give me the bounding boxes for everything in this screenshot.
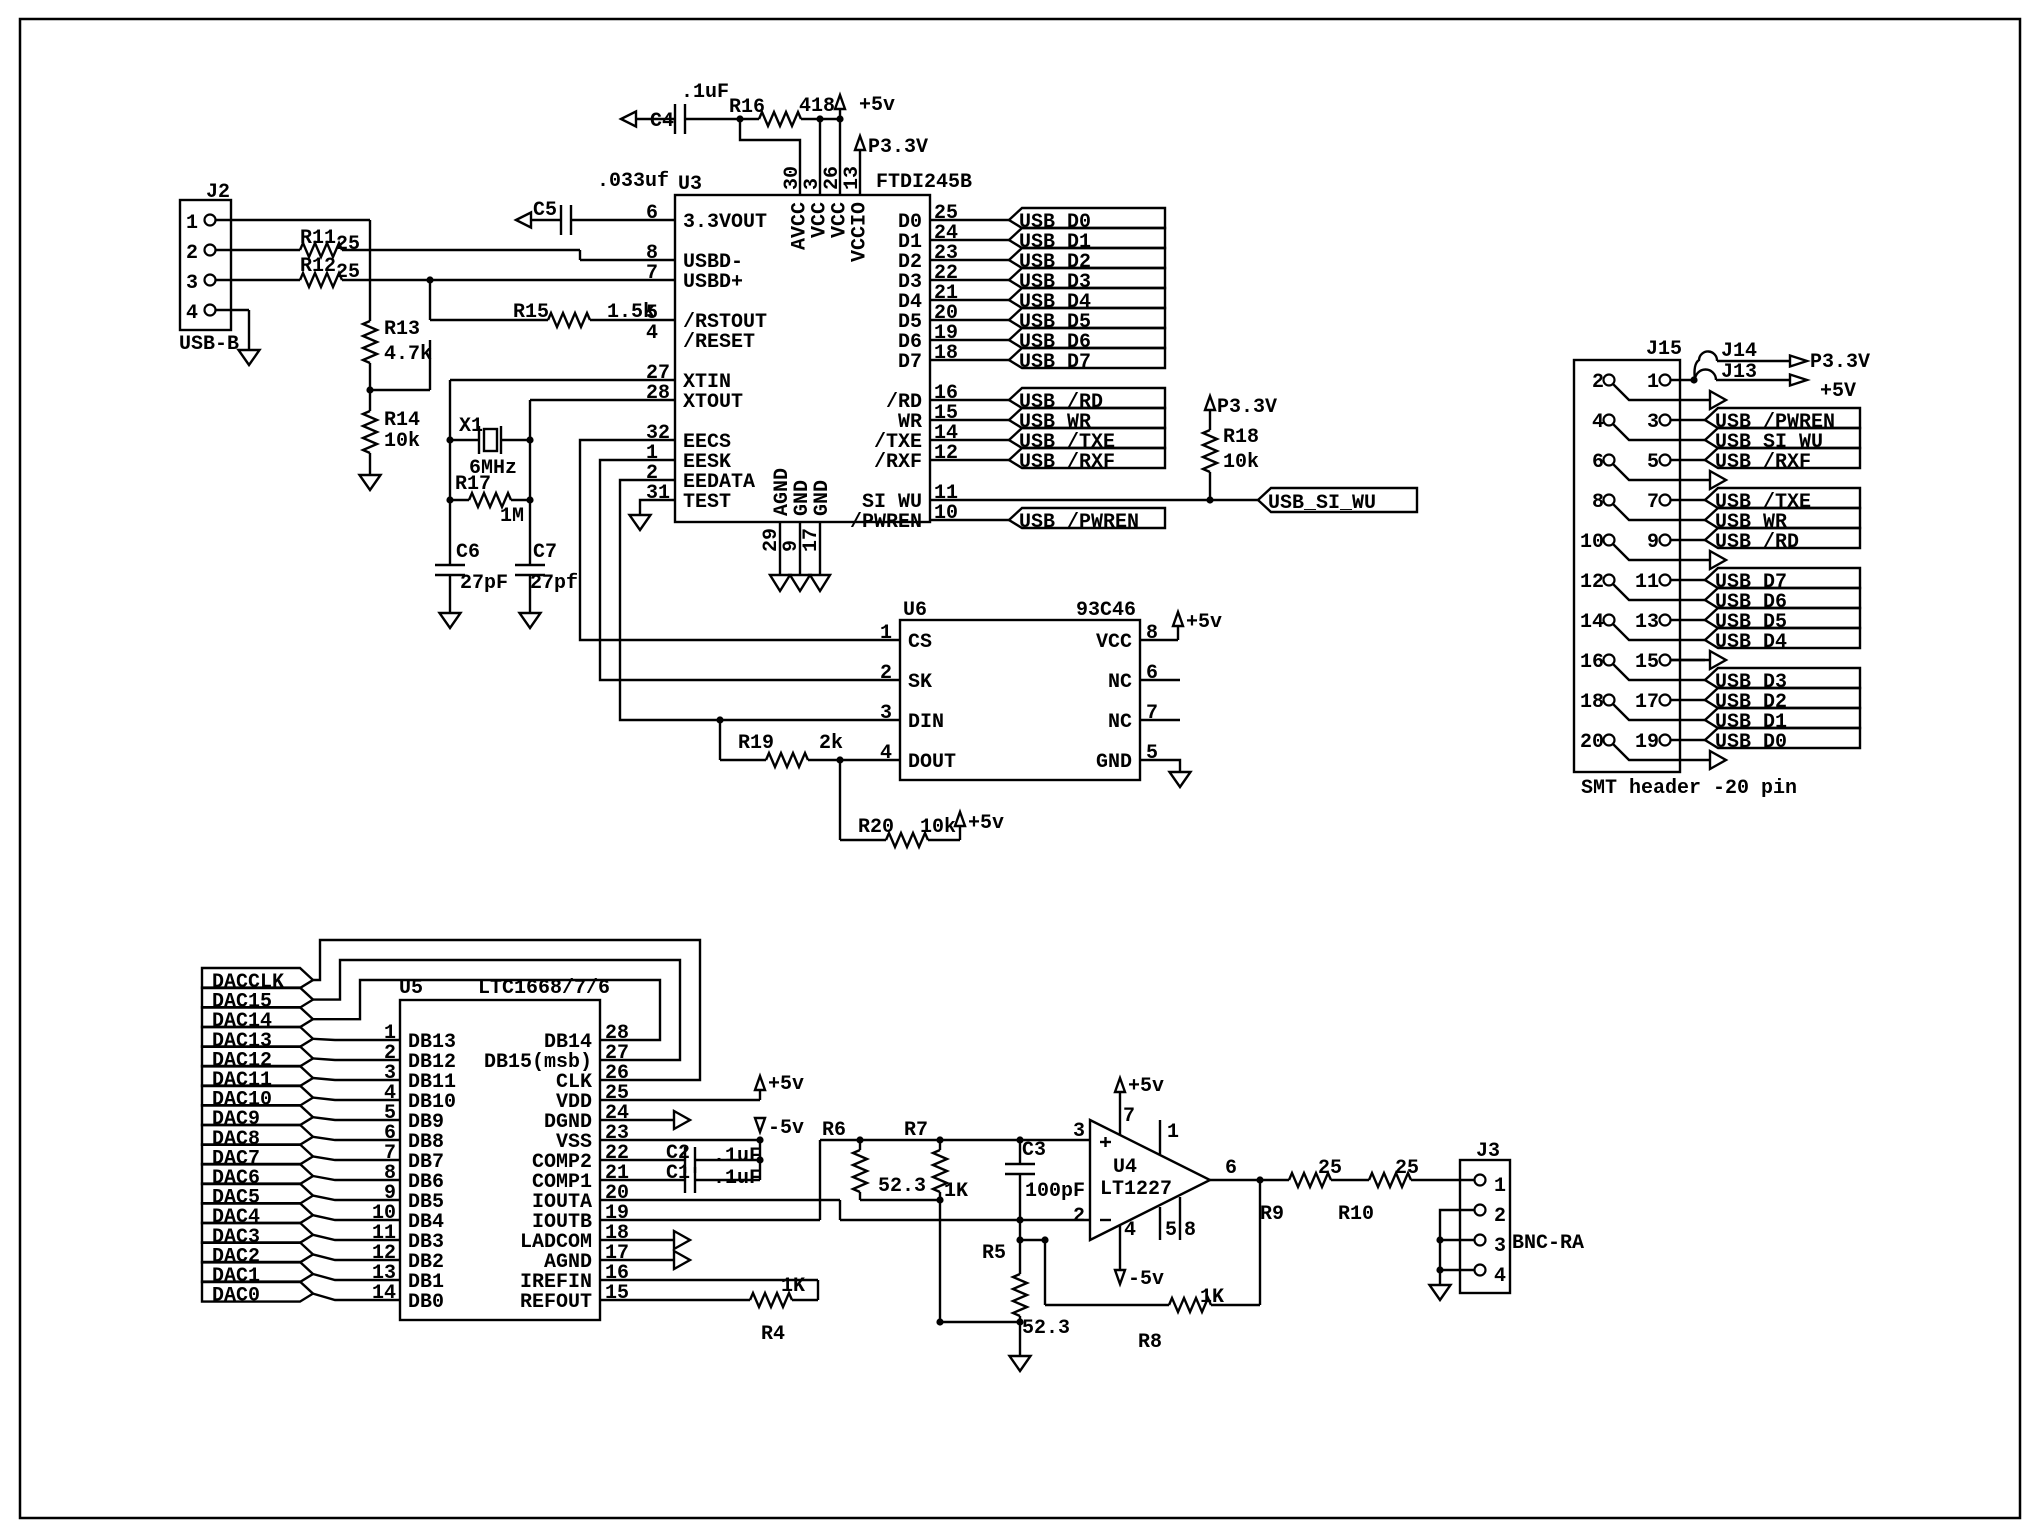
svg-text:C3: C3	[1022, 1139, 1046, 1162]
svg-text:.1uF: .1uF	[713, 1167, 761, 1190]
svg-text:5: 5	[1647, 451, 1659, 474]
svg-text:15: 15	[1635, 651, 1659, 674]
svg-text:7: 7	[1647, 491, 1659, 514]
svg-text:BNC-RA: BNC-RA	[1512, 1232, 1584, 1255]
svg-text:20: 20	[1580, 731, 1604, 754]
svg-text:R9: R9	[1260, 1203, 1284, 1226]
svg-text:1: 1	[880, 622, 892, 645]
svg-text:52.3: 52.3	[1022, 1317, 1070, 1340]
svg-text:1M: 1M	[500, 505, 524, 528]
svg-text:NC: NC	[1108, 711, 1132, 734]
svg-text:R4: R4	[761, 1323, 785, 1346]
svg-text:DAC0: DAC0	[212, 1285, 260, 1308]
svg-text:3.3VOUT: 3.3VOUT	[683, 211, 767, 234]
svg-text:+5v: +5v	[1128, 1075, 1164, 1098]
svg-text:X1: X1	[459, 415, 483, 438]
svg-text:CS: CS	[908, 631, 932, 654]
svg-text:4: 4	[1494, 1265, 1506, 1288]
svg-text:10k: 10k	[384, 430, 420, 453]
svg-text:6: 6	[646, 202, 658, 225]
svg-text:7: 7	[646, 262, 658, 285]
svg-text:C1: C1	[666, 1162, 690, 1185]
svg-text:93C46: 93C46	[1076, 599, 1136, 622]
svg-text:19: 19	[1635, 731, 1659, 754]
svg-text:R20: R20	[858, 816, 894, 839]
svg-text:+5v: +5v	[768, 1073, 804, 1096]
svg-text:418: 418	[799, 95, 835, 118]
svg-text:USB_/RXF: USB_/RXF	[1715, 451, 1811, 474]
svg-text:XTOUT: XTOUT	[683, 391, 743, 414]
svg-text:USBD+: USBD+	[683, 271, 743, 294]
svg-text:P3.3V: P3.3V	[868, 136, 928, 159]
svg-text:DIN: DIN	[908, 711, 944, 734]
svg-text:R8: R8	[1138, 1331, 1162, 1354]
svg-text:USB_D7: USB_D7	[1019, 351, 1091, 374]
svg-text:12: 12	[1580, 571, 1604, 594]
svg-text:1: 1	[1494, 1175, 1506, 1198]
svg-text:4: 4	[186, 302, 198, 325]
svg-text:25: 25	[1395, 1157, 1419, 1180]
svg-text:25: 25	[336, 233, 360, 256]
svg-text:+5V: +5V	[1820, 380, 1856, 403]
svg-text:25: 25	[336, 261, 360, 284]
svg-text:27pf: 27pf	[530, 572, 578, 595]
svg-text:U3: U3	[678, 173, 702, 196]
svg-text:REFOUT: REFOUT	[520, 1291, 592, 1314]
svg-text:2: 2	[1592, 371, 1604, 394]
svg-text:USB_/RXF: USB_/RXF	[1019, 451, 1115, 474]
svg-text:VCCIO: VCCIO	[849, 202, 872, 262]
svg-text:4: 4	[1124, 1219, 1136, 1242]
svg-text:+5v: +5v	[859, 94, 895, 117]
svg-text:U4: U4	[1113, 1156, 1137, 1179]
svg-text:15: 15	[605, 1282, 629, 1305]
svg-text:J2: J2	[206, 181, 230, 204]
svg-text:4.7k: 4.7k	[384, 343, 432, 366]
svg-text:17: 17	[1635, 691, 1659, 714]
svg-text:10: 10	[1580, 531, 1604, 554]
svg-text:10: 10	[934, 502, 958, 525]
svg-text:18: 18	[934, 342, 958, 365]
svg-text:C7: C7	[533, 541, 557, 564]
svg-text:4: 4	[1592, 411, 1604, 434]
svg-text:4: 4	[880, 742, 892, 765]
svg-text:USB-B: USB-B	[179, 333, 239, 356]
svg-text:NC: NC	[1108, 671, 1132, 694]
svg-text:USB_SI_WU: USB_SI_WU	[1268, 492, 1376, 515]
svg-text:25: 25	[1318, 1157, 1342, 1180]
svg-text:14: 14	[372, 1282, 396, 1305]
svg-text:C5: C5	[533, 199, 557, 222]
svg-text:C4: C4	[650, 110, 674, 133]
svg-text:1K: 1K	[781, 1275, 805, 1298]
svg-text:2: 2	[1494, 1205, 1506, 1228]
svg-text:7: 7	[1123, 1105, 1135, 1128]
svg-text:11: 11	[1635, 571, 1659, 594]
svg-text:USB_D4: USB_D4	[1715, 631, 1787, 654]
svg-text:R5: R5	[982, 1242, 1006, 1265]
svg-text:U6: U6	[903, 599, 927, 622]
svg-text:3: 3	[186, 272, 198, 295]
svg-text:R10: R10	[1338, 1203, 1374, 1226]
svg-text:R12: R12	[300, 255, 336, 278]
svg-text:R15: R15	[513, 301, 549, 324]
svg-text:/PWREN: /PWREN	[850, 511, 922, 534]
svg-text:1: 1	[1167, 1121, 1179, 1144]
svg-text:R19: R19	[738, 732, 774, 755]
svg-text:J14: J14	[1721, 340, 1757, 363]
svg-text:4: 4	[646, 322, 658, 345]
svg-text:J3: J3	[1476, 1140, 1500, 1163]
svg-text:2: 2	[186, 242, 198, 265]
svg-text:J15: J15	[1646, 338, 1682, 361]
svg-text:8: 8	[1184, 1219, 1196, 1242]
svg-text:6: 6	[1225, 1157, 1237, 1180]
svg-text:100pF: 100pF	[1025, 1180, 1085, 1203]
svg-text:R17: R17	[455, 473, 491, 496]
svg-text:6: 6	[1592, 451, 1604, 474]
svg-text:DB0: DB0	[408, 1291, 444, 1314]
svg-text:5: 5	[1165, 1219, 1177, 1242]
svg-text:D7: D7	[898, 351, 922, 374]
svg-text:USB_D0: USB_D0	[1715, 731, 1787, 754]
svg-text:.1uF: .1uF	[713, 1145, 761, 1168]
svg-text:8: 8	[1146, 622, 1158, 645]
svg-text:9: 9	[1647, 531, 1659, 554]
svg-text:18: 18	[1580, 691, 1604, 714]
svg-text:3: 3	[1647, 411, 1659, 434]
svg-text:28: 28	[646, 382, 670, 405]
svg-text:+5v: +5v	[968, 812, 1004, 835]
svg-text:R11: R11	[300, 227, 336, 250]
svg-text:.033uf: .033uf	[597, 170, 669, 193]
svg-text:17: 17	[800, 528, 823, 552]
svg-text:5: 5	[1146, 742, 1158, 765]
svg-text:31: 31	[646, 482, 670, 505]
svg-text:R13: R13	[384, 318, 420, 341]
svg-text:1: 1	[1647, 371, 1659, 394]
svg-text:J13: J13	[1721, 361, 1757, 384]
svg-text:GND: GND	[811, 480, 834, 516]
svg-text:2: 2	[1073, 1205, 1085, 1228]
svg-text:/RESET: /RESET	[683, 331, 755, 354]
svg-text:+5v: +5v	[1186, 611, 1222, 634]
svg-text:10k: 10k	[920, 816, 956, 839]
svg-text:6: 6	[1146, 662, 1158, 685]
svg-text:27pF: 27pF	[460, 572, 508, 595]
svg-text:R7: R7	[904, 1119, 928, 1142]
svg-text:2k: 2k	[819, 732, 843, 755]
svg-text:-5v: -5v	[768, 1117, 804, 1140]
svg-text:3: 3	[880, 702, 892, 725]
svg-text:R14: R14	[384, 409, 420, 432]
svg-text:13: 13	[1635, 611, 1659, 634]
svg-text:1: 1	[186, 212, 198, 235]
svg-text:C6: C6	[456, 541, 480, 564]
svg-text:13: 13	[841, 166, 864, 190]
svg-text:R6: R6	[822, 1119, 846, 1142]
svg-text:16: 16	[1580, 651, 1604, 674]
svg-text:TEST: TEST	[683, 491, 731, 514]
svg-text:DOUT: DOUT	[908, 751, 956, 774]
svg-text:USB_/RD: USB_/RD	[1715, 531, 1799, 554]
svg-text:FTDI245B: FTDI245B	[876, 171, 972, 194]
svg-text:R18: R18	[1223, 426, 1259, 449]
svg-text:USB_/PWREN: USB_/PWREN	[1019, 511, 1139, 534]
svg-text:P3.3V: P3.3V	[1217, 396, 1277, 419]
svg-text:1K: 1K	[1200, 1286, 1224, 1309]
svg-text:8: 8	[1592, 491, 1604, 514]
svg-text:14: 14	[1580, 611, 1604, 634]
svg-text:VCC: VCC	[1096, 631, 1132, 654]
svg-text:GND: GND	[1096, 751, 1132, 774]
svg-text:3: 3	[1073, 1120, 1085, 1143]
svg-text:/RXF: /RXF	[874, 451, 922, 474]
svg-text:10k: 10k	[1223, 451, 1259, 474]
svg-text:R16: R16	[729, 96, 765, 119]
svg-text:SK: SK	[908, 671, 932, 694]
svg-text:7: 7	[1146, 702, 1158, 725]
svg-text:-5v: -5v	[1128, 1268, 1164, 1291]
svg-text:P3.3V: P3.3V	[1810, 351, 1870, 374]
svg-text:2: 2	[880, 662, 892, 685]
svg-text:3: 3	[1494, 1235, 1506, 1258]
svg-text:12: 12	[934, 442, 958, 465]
svg-text:.1uF: .1uF	[681, 81, 729, 104]
svg-text:SMT header -20 pin: SMT header -20 pin	[1581, 777, 1797, 800]
svg-text:LT1227: LT1227	[1100, 1178, 1172, 1201]
svg-text:52.3: 52.3	[878, 1175, 926, 1198]
svg-text:1K: 1K	[944, 1180, 968, 1203]
